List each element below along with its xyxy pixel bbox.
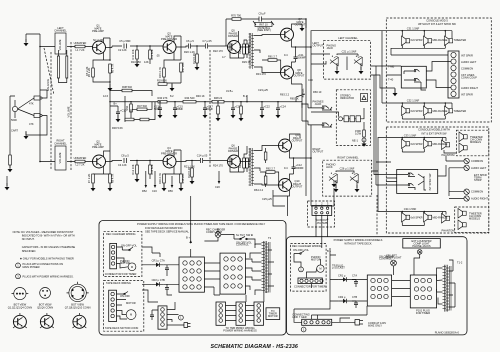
svg-text:OUTPUT: OUTPUT bbox=[313, 43, 324, 47]
svg-text:(SEE INST.): (SEE INST.) bbox=[257, 28, 271, 32]
wire bbox=[164, 72, 181, 88]
resistor R11 bbox=[136, 50, 139, 59]
svg-text:POWER WIRING HARNESS: POWER WIRING HARNESS bbox=[223, 329, 257, 333]
svg-text:✱ ONLY FOR MODELS WITH PHONO T: ✱ ONLY FOR MODELS WITH PHONO TIMER bbox=[20, 256, 74, 260]
resistor R43 650 bbox=[140, 118, 149, 121]
capacitor C24 bbox=[276, 108, 280, 110]
speaker LS4 bbox=[402, 106, 410, 116]
wire bbox=[244, 146, 247, 172]
ground bbox=[135, 175, 140, 182]
svg-text:C8 µ.5: C8 µ.5 bbox=[121, 154, 129, 158]
transistor Q5 bbox=[228, 41, 241, 54]
wire output bus right channel bbox=[273, 125, 311, 206]
wire bbox=[260, 172, 281, 185]
resistor network in stereo box bbox=[339, 117, 343, 121]
resistor R13 bbox=[149, 50, 152, 59]
ground bbox=[276, 111, 281, 118]
svg-text:+C22: +C22 bbox=[264, 105, 271, 109]
wire rec changer bbox=[117, 247, 129, 268]
resistor R12 bbox=[136, 165, 139, 174]
wire to ac plug 2 bbox=[332, 318, 355, 322]
svg-text:C40: C40 bbox=[308, 78, 313, 82]
wire Q2 output to Q4 bbox=[106, 161, 164, 162]
motor phono 2 bbox=[317, 265, 324, 272]
speaker LS12 bbox=[402, 213, 410, 223]
svg-text:R10 650: R10 650 bbox=[131, 60, 141, 64]
stub wire left edge lower bbox=[6, 176, 8, 186]
resistor R31 bias bbox=[130, 104, 133, 112]
switch SL tilt bbox=[234, 237, 252, 240]
circled 1b bbox=[301, 327, 306, 332]
svg-text:C23 µ25: C23 µ25 bbox=[258, 88, 268, 92]
ground bbox=[359, 67, 364, 74]
svg-text:6x9 SPKR: 6x9 SPKR bbox=[411, 38, 423, 42]
resistor R2 volume control right bbox=[55, 146, 66, 170]
svg-text:DRIVER: DRIVER bbox=[228, 34, 238, 38]
box phantom conn models bottom bbox=[455, 207, 489, 233]
svg-text:COMMON: COMMON bbox=[471, 190, 483, 194]
wire speaker feed bottom bbox=[386, 103, 452, 108]
transistor Q7 bbox=[281, 28, 294, 41]
wire bbox=[262, 60, 281, 73]
wire dashed gang to console bbox=[376, 195, 378, 235]
capacitor C13 electrolytic bbox=[158, 108, 162, 110]
svg-text:CR2 µ: CR2 µ bbox=[338, 295, 346, 299]
svg-text:R44 540: R44 540 bbox=[185, 96, 195, 100]
svg-text:CONSOLE MOD 5: CONSOLE MOD 5 bbox=[426, 19, 448, 23]
wire harness links bbox=[226, 306, 255, 321]
node input junction bbox=[39, 46, 41, 48]
phono cartridge symbol bbox=[12, 106, 17, 111]
speaker LS14 bbox=[442, 214, 450, 224]
wire jack box to column bbox=[421, 62, 451, 91]
svg-text:LINK 7 GER: LINK 7 GER bbox=[292, 315, 306, 319]
wire bbox=[246, 40, 248, 58]
ground bbox=[170, 84, 175, 91]
svg-text:INDICATED TO B- WITH A VTVM +: INDICATED TO B- WITH A VTVM + OR WITH bbox=[22, 234, 75, 238]
svg-text:R12 10K: R12 10K bbox=[131, 164, 135, 174]
phono jack L2 bbox=[354, 56, 363, 66]
svg-text:MID-RANGE: MID-RANGE bbox=[433, 38, 448, 42]
svg-text:Q7,Q8,Q9,Q10 CONN: Q7,Q8,Q9,Q10 CONN bbox=[65, 305, 91, 309]
wire T2 secondary taps bbox=[254, 146, 281, 186]
svg-text:1: 1 bbox=[303, 328, 305, 332]
wire speaker feed row 2 bbox=[386, 212, 446, 215]
speaker LS10 bbox=[459, 132, 467, 142]
wire T1 secondary taps bbox=[254, 35, 281, 73]
resistor R8 bbox=[109, 174, 112, 183]
svg-text:CART: CART bbox=[11, 129, 18, 133]
svg-text:R64 2.2: R64 2.2 bbox=[254, 188, 264, 192]
svg-text:MODELS: MODELS bbox=[470, 140, 481, 144]
svg-text:R17 220: R17 220 bbox=[181, 62, 185, 72]
svg-text:6x9 SPKR: 6x9 SPKR bbox=[411, 142, 423, 146]
connector harness pair right bbox=[254, 302, 264, 325]
wire strip links bbox=[167, 302, 179, 322]
svg-text:R5 2.2K: R5 2.2K bbox=[87, 68, 91, 78]
resistor R5 bbox=[92, 68, 95, 77]
svg-text:2: 2 bbox=[321, 202, 323, 206]
wire into stereo box bbox=[311, 108, 364, 117]
wire Q8 bbox=[292, 62, 303, 84]
resistor R39 27K bbox=[125, 118, 134, 121]
capacitor C6 bbox=[189, 44, 191, 49]
transistor legend 3 bbox=[73, 315, 86, 328]
svg-text:TAPE DECK MOTOR CONN: TAPE DECK MOTOR CONN bbox=[105, 326, 138, 330]
connector block 2a bbox=[367, 275, 391, 306]
wire jacks right channel bbox=[336, 171, 357, 188]
svg-text:CONNECTOR FOR TIMER: CONNECTOR FOR TIMER bbox=[105, 272, 137, 276]
wire vertical x247 bbox=[246, 95, 248, 102]
svg-text:INT & EXT SPKR SW: INT & EXT SPKR SW bbox=[422, 131, 448, 135]
wire bbox=[149, 46, 151, 64]
speaker LS13 bbox=[424, 213, 432, 223]
phono jack L1 bbox=[330, 56, 339, 66]
wire Q3 collector emitter bbox=[164, 36, 181, 68]
speaker LS7 bbox=[402, 139, 410, 149]
svg-text:PHONE JACKS: PHONE JACKS bbox=[412, 244, 431, 248]
lamp rec changer comp light bbox=[215, 232, 221, 238]
svg-text:1/2W: 1/2W bbox=[355, 132, 362, 136]
svg-text:C16: C16 bbox=[152, 189, 157, 193]
wire amp to left channel box bbox=[311, 54, 330, 64]
wire pot wiper dashed diagonal bbox=[44, 48, 54, 95]
ground bbox=[24, 132, 29, 139]
svg-text:PRE-AMP: PRE-AMP bbox=[92, 29, 104, 33]
svg-text:50MF: 50MF bbox=[177, 107, 184, 111]
ground bbox=[239, 114, 244, 121]
capacitor C14 bbox=[201, 158, 203, 163]
speaker LS16 bbox=[458, 220, 466, 230]
transformer T1 primary bbox=[240, 33, 250, 47]
diode CR1 bbox=[152, 264, 164, 266]
svg-text:WITHOUT INT & EXT SPKR SW: WITHOUT INT & EXT SPKR SW bbox=[418, 22, 456, 26]
svg-text:JACK: JACK bbox=[326, 165, 333, 169]
svg-text:1: 1 bbox=[300, 267, 302, 271]
svg-text:B +: B + bbox=[186, 236, 190, 240]
resistor R40 27K bbox=[158, 100, 167, 103]
capacitor C1 bbox=[58, 50, 66, 56]
box left channel phono jack bbox=[324, 41, 371, 79]
wire lower input bbox=[26, 100, 40, 162]
box to timer motor bbox=[266, 308, 280, 320]
svg-text:JACK: JACK bbox=[315, 102, 322, 106]
wire bbox=[26, 34, 40, 100]
diode CR2 bbox=[152, 283, 164, 285]
transistor legend 1 bbox=[13, 315, 26, 328]
ground bbox=[260, 111, 265, 118]
circled 1 bbox=[179, 315, 184, 320]
wire Q1 output to Q3 bbox=[106, 46, 164, 48]
svg-text:PRE-DRIVER: PRE-DRIVER bbox=[161, 37, 177, 41]
svg-text:C5 µ.5MF: C5 µ.5MF bbox=[119, 39, 131, 43]
svg-text:INT SPKR: INT SPKR bbox=[461, 92, 473, 96]
wire bus to console right bbox=[371, 66, 387, 212]
jack symbol b bbox=[404, 79, 421, 83]
svg-text:ON-OFF-VOL: ON-OFF-VOL bbox=[293, 248, 310, 252]
wire bbox=[246, 168, 248, 172]
connector block 2b bbox=[410, 275, 436, 308]
wire into sub box bbox=[386, 162, 446, 185]
connector strip vertical 2 bbox=[109, 290, 117, 321]
resistor R14 bbox=[149, 165, 152, 174]
wire row1 link bbox=[402, 149, 456, 153]
resistor R24 bbox=[243, 158, 246, 168]
box ext loudspkr comp light bbox=[403, 239, 441, 248]
ground bbox=[300, 24, 305, 31]
ground bbox=[158, 111, 163, 118]
resistor R25 bbox=[246, 44, 249, 54]
svg-text:DRIVER: DRIVER bbox=[228, 149, 238, 153]
wire bbox=[217, 102, 219, 118]
svg-text:SPECIFIED.: SPECIFIED. bbox=[22, 249, 37, 253]
wire bbox=[130, 102, 132, 112]
box console models without switch bbox=[386, 18, 491, 122]
svg-text:NOTE: DC VOLTAGES - MEASURED: NOTE: DC VOLTAGES - MEASURED FROM POINT bbox=[13, 230, 74, 234]
wire bias bus bbox=[110, 96, 302, 122]
capacitor C17 electrolytic bbox=[203, 108, 207, 110]
capacitor C12 500MF bbox=[292, 167, 296, 169]
resistor R1 volume control bbox=[55, 33, 66, 54]
ground bbox=[8, 165, 13, 172]
wire upper bias rail bbox=[110, 91, 152, 97]
svg-text:R29 1K: R29 1K bbox=[242, 60, 251, 64]
lamp ext bbox=[417, 250, 422, 255]
speaker LS11 bbox=[459, 143, 467, 153]
svg-text:CONN COUP: CONN COUP bbox=[461, 75, 477, 79]
box power supply 1 bbox=[99, 221, 286, 336]
svg-text:R21 1.2K: R21 1.2K bbox=[184, 165, 195, 169]
svg-text:CAPACITORS - IN MF UNLESS OTHE: CAPACITORS - IN MF UNLESS OTHERWISE bbox=[22, 245, 76, 249]
transistor Q10 bbox=[279, 179, 292, 192]
svg-text:µ SOCKET: µ SOCKET bbox=[332, 266, 345, 270]
wire row2 link bbox=[402, 222, 424, 225]
resistor R17 bbox=[180, 63, 183, 72]
svg-text:R16 2.7K: R16 2.7K bbox=[158, 173, 162, 184]
svg-text:CONNECTOR FOR TIMER: CONNECTOR FOR TIMER bbox=[294, 285, 326, 289]
switch arm bbox=[418, 174, 426, 190]
wire bbox=[40, 46, 93, 48]
svg-text:MOTOR: MOTOR bbox=[268, 314, 278, 318]
wire stereo net bbox=[343, 112, 365, 130]
svg-text:SL TILT: SL TILT bbox=[236, 233, 245, 237]
wire bbox=[136, 161, 138, 180]
legend numbered circle 1 bbox=[16, 263, 21, 268]
wire volume gang dashed bbox=[70, 42, 72, 170]
resistor R23 bbox=[243, 44, 246, 54]
svg-text:3: 3 bbox=[17, 274, 19, 278]
svg-text:MODELS: MODELS bbox=[469, 216, 480, 220]
svg-text:PHANTOM: PHANTOM bbox=[442, 229, 455, 233]
svg-text:CR1 µ: CR1 µ bbox=[338, 274, 346, 278]
speaker LS1 bbox=[402, 36, 410, 46]
wire speakers bottom row link bbox=[391, 45, 445, 55]
svg-text:R15 2.7K: R15 2.7K bbox=[158, 67, 162, 78]
wire B+ feed bbox=[190, 240, 192, 258]
svg-text:VOLUME: VOLUME bbox=[67, 106, 71, 117]
resistor R49 bbox=[240, 106, 243, 114]
svg-text:CR1 µ C7A: CR1 µ C7A bbox=[152, 259, 165, 263]
ground bbox=[162, 184, 167, 191]
svg-text:B- BUS: B- BUS bbox=[301, 88, 305, 97]
svg-text:WITHOUT TAPE DECK: WITHOUT TAPE DECK bbox=[344, 241, 372, 245]
svg-text:R61 2.7: R61 2.7 bbox=[268, 55, 278, 59]
svg-text:T-MB: T-MB bbox=[388, 65, 394, 69]
svg-text:R38 540: R38 540 bbox=[122, 85, 132, 89]
wire Q9 bbox=[290, 134, 301, 158]
resistor R7 bbox=[92, 174, 95, 183]
transistor Q2 bbox=[93, 155, 106, 168]
svg-text:SCHEMATIC DIAGRAM - HS-2336: SCHEMATIC DIAGRAM - HS-2336 bbox=[211, 344, 299, 350]
wire tone gang dashed bbox=[209, 50, 211, 168]
socket view A bbox=[14, 288, 26, 300]
svg-text:R8 4.7K: R8 4.7K bbox=[111, 174, 115, 184]
indicator lamp symbol bbox=[361, 94, 368, 102]
svg-text:R7 2.2K: R7 2.2K bbox=[87, 174, 91, 184]
svg-text:C25 µ25: C25 µ25 bbox=[262, 197, 272, 201]
svg-text:M: M bbox=[319, 267, 321, 271]
wire link feeds bbox=[294, 301, 367, 322]
speaker LS6 bbox=[445, 106, 453, 116]
capacitor C7B bbox=[165, 288, 169, 290]
ground bbox=[108, 84, 113, 91]
svg-text:47K: 47K bbox=[29, 122, 34, 126]
svg-text:6x9 SPKR: 6x9 SPKR bbox=[411, 109, 423, 113]
resistor R48 22 bbox=[212, 100, 224, 103]
switch on-off-vol 2 bbox=[294, 251, 304, 254]
svg-text:CONSOLE MODELS WITH: CONSOLE MODELS WITH bbox=[418, 128, 450, 132]
wire Q4 network bbox=[164, 150, 181, 174]
svg-text:C7B: C7B bbox=[352, 295, 357, 299]
svg-text:M: M bbox=[130, 313, 132, 317]
wire bbox=[134, 102, 155, 120]
wire diodes to block bbox=[142, 265, 179, 295]
svg-text:R19 82K: R19 82K bbox=[157, 78, 167, 82]
svg-text:COMMON: COMMON bbox=[461, 67, 473, 71]
svg-text:RIGHT CHANNEL: RIGHT CHANNEL bbox=[337, 156, 359, 160]
capacitor C7B2 bbox=[354, 303, 358, 305]
ground bbox=[393, 89, 398, 96]
svg-text:R23 270: R23 270 bbox=[238, 44, 242, 54]
node junction dots bbox=[109, 18, 312, 161]
svg-text:T3: T3 bbox=[268, 236, 272, 240]
wire output bus left channel bbox=[296, 31, 387, 108]
diode row 1 bbox=[338, 279, 352, 281]
cartridge element lower bbox=[34, 114, 40, 118]
ground bbox=[173, 111, 178, 118]
speaker LS15 bbox=[458, 209, 466, 219]
box right channel phono jack bbox=[323, 160, 372, 196]
svg-text:R11 10K: R11 10K bbox=[131, 49, 135, 59]
wire bbox=[93, 183, 110, 188]
switch tape bbox=[117, 292, 129, 320]
svg-text:47K: 47K bbox=[29, 102, 34, 106]
svg-text:VOLUME: VOLUME bbox=[58, 39, 62, 50]
capacitor C30 bbox=[150, 315, 154, 317]
svg-text:SC 2.2M: SC 2.2M bbox=[93, 38, 103, 42]
legend numbered circle 3 bbox=[16, 274, 21, 279]
wire bbox=[244, 40, 247, 58]
svg-text:C21 µ 1.5NF: C21 µ 1.5NF bbox=[342, 50, 357, 54]
svg-text:Q5,Q6 CONN: Q5,Q6 CONN bbox=[37, 305, 53, 309]
wire junction to tone bbox=[196, 46, 198, 54]
socket view C bbox=[69, 284, 86, 301]
svg-text:OUTPUT: OUTPUT bbox=[292, 139, 303, 143]
ground bbox=[231, 111, 236, 118]
svg-text:R22 170: R22 170 bbox=[213, 49, 223, 53]
wire jacks bbox=[337, 54, 361, 70]
svg-text:T1-2: T1-2 bbox=[457, 261, 463, 265]
svg-text:MOTOR: MOTOR bbox=[126, 301, 136, 305]
wire Q4 out to Q6 bbox=[176, 161, 228, 162]
svg-text:R18 220: R18 220 bbox=[181, 173, 185, 183]
wire speaker feed row 1 bbox=[386, 138, 446, 142]
svg-text:VOLUME: VOLUME bbox=[58, 152, 62, 163]
wire block links 2 bbox=[392, 254, 420, 296]
resistor R15 bbox=[163, 68, 166, 77]
connector strip bottom bbox=[158, 306, 167, 329]
connector block J1 bbox=[220, 253, 245, 294]
svg-text:INT SPKR SW: INT SPKR SW bbox=[428, 173, 432, 190]
switch jack c bbox=[400, 173, 416, 177]
svg-text:C7 µ.05: C7 µ.05 bbox=[202, 39, 212, 43]
svg-text:C20: C20 bbox=[215, 185, 220, 189]
circled 1 bbox=[299, 267, 304, 272]
resistor R3 1.2K bbox=[75, 45, 85, 48]
box rec changer wiring 2 (dashed) bbox=[291, 244, 327, 292]
capacitor C5 bbox=[124, 44, 127, 49]
transistor Q8 bbox=[281, 66, 294, 79]
wire bottom row link bbox=[402, 116, 445, 119]
node bbox=[39, 161, 41, 163]
svg-text:C31 1.5NF: C31 1.5NF bbox=[407, 26, 420, 30]
resistor R18 bbox=[180, 174, 183, 183]
svg-text:PHANTOM: PHANTOM bbox=[442, 153, 455, 157]
wire bbox=[240, 102, 242, 118]
svg-text:R52: R52 bbox=[142, 189, 147, 193]
svg-text:OUTPUT: OUTPUT bbox=[292, 185, 303, 189]
wire top bus bbox=[226, 19, 306, 46]
svg-text:OUTPUT: OUTPUT bbox=[294, 74, 305, 78]
capacitor C7 bbox=[206, 44, 208, 49]
wire bbox=[265, 172, 267, 187]
svg-text:9.4: 9.4 bbox=[284, 53, 288, 57]
wire balance gang dashed bbox=[50, 52, 52, 170]
wire bbox=[191, 177, 193, 181]
transformer T2 bbox=[240, 148, 250, 162]
svg-text:LEFT CHANNEL: LEFT CHANNEL bbox=[338, 36, 358, 40]
svg-text:R70 790: R70 790 bbox=[231, 14, 241, 18]
ground bbox=[5, 183, 10, 190]
cartridge element upper bbox=[34, 96, 40, 100]
node bbox=[295, 46, 297, 48]
svg-text:500MF: 500MF bbox=[296, 166, 304, 170]
svg-text:MID-RANGE: MID-RANGE bbox=[433, 142, 448, 146]
resistor R38 540 bbox=[122, 89, 132, 92]
svg-text:1: 1 bbox=[315, 202, 317, 206]
svg-text:STRIP: STRIP bbox=[474, 178, 482, 182]
svg-text:C7A: C7A bbox=[352, 274, 357, 278]
wire B- bus bbox=[302, 19, 306, 196]
wire right channel input bbox=[40, 161, 93, 163]
svg-text:REC CHANGER WIRING: REC CHANGER WIRING bbox=[106, 232, 136, 236]
capacitor C7A bbox=[165, 268, 169, 270]
connector harness pair middle bbox=[236, 302, 246, 325]
motor tape M2 bbox=[126, 310, 136, 320]
capacitor C22 bbox=[260, 108, 264, 110]
diode row 2 bbox=[338, 300, 352, 302]
svg-text:C9 µF: C9 µF bbox=[258, 12, 266, 16]
